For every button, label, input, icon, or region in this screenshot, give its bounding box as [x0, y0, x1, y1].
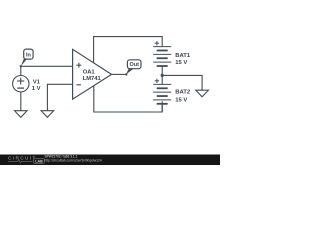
svg-text:LM741: LM741 — [83, 76, 102, 82]
svg-text:Out: Out — [129, 62, 139, 68]
svg-text:http://circuitlab.com/c/zw/3n9: http://circuitlab.com/c/zw/3n9i0qelw124 — [45, 158, 102, 162]
svg-text:15 V: 15 V — [175, 97, 187, 103]
svg-text:V1: V1 — [33, 80, 41, 86]
svg-text:1 V: 1 V — [32, 86, 41, 92]
svg-text:In: In — [26, 52, 32, 58]
svg-text:BAT2: BAT2 — [175, 90, 191, 96]
svg-text:15 V: 15 V — [175, 60, 187, 66]
svg-text:LAB: LAB — [35, 160, 43, 164]
svg-text:CIRCUIT: CIRCUIT — [8, 155, 37, 160]
svg-text:BAT1: BAT1 — [175, 53, 191, 59]
svg-text:OA1: OA1 — [83, 70, 96, 76]
